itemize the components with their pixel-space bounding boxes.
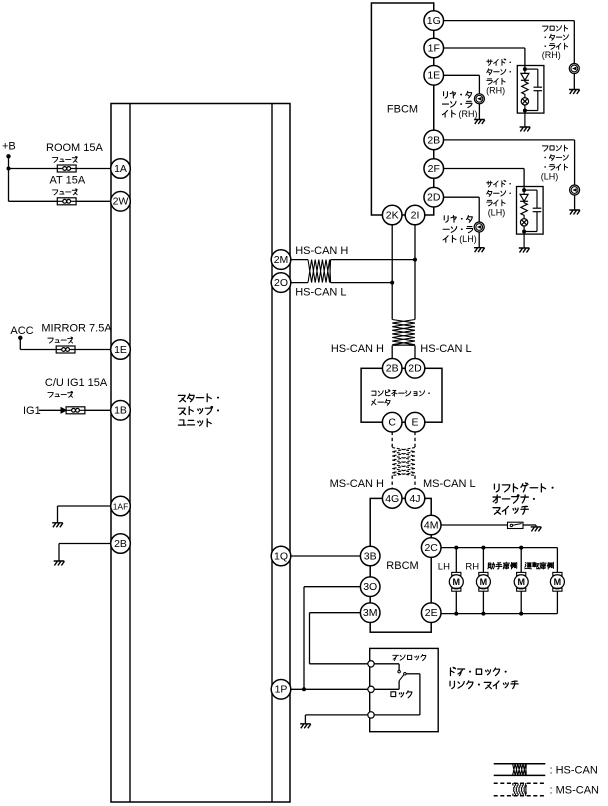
wire 2I down: [414, 215, 416, 320]
wire HS-CAN L to 2K branch: [331, 282, 393, 284]
contact common: [368, 686, 374, 692]
terminal 1AF: [111, 496, 131, 516]
terminal 2B FBCM: [424, 130, 444, 150]
junction +B/ROOM fuse: [7, 167, 11, 171]
wire 2B to ground: [59, 543, 112, 545]
terminal 1Q: [271, 546, 291, 566]
svg-text:: MS-CAN: : MS-CAN: [550, 785, 600, 797]
svg-text:ACC: ACC: [10, 325, 33, 337]
svg-text:2E: 2E: [425, 607, 438, 619]
resistor: [522, 80, 528, 95]
start-stop unit inner right rail: [271, 104, 273, 803]
bulb: [523, 217, 525, 219]
svg-text:1Q: 1Q: [274, 550, 288, 562]
wire 2D to rear turn light LH: [434, 196, 479, 198]
wire switch to ground: [523, 524, 536, 526]
svg-text:1E: 1E: [427, 70, 440, 82]
junction 2E bus: [454, 612, 458, 616]
svg-text:1B: 1B: [114, 405, 127, 417]
front turn light LH bulb: [570, 185, 580, 195]
label door lock link switch: [450, 667, 506, 675]
arrowhead: [61, 408, 66, 413]
junction HS-CAN L: [390, 281, 394, 285]
terminal 2K: [382, 205, 402, 225]
side turn light RH: unit box: [517, 66, 544, 114]
junction 2C bus: [519, 546, 523, 550]
svg-text:M: M: [517, 577, 525, 587]
label driver side: [525, 562, 554, 569]
label side turn light RH: [487, 59, 511, 65]
junction 2C bus: [454, 546, 458, 550]
legend twisted pair solid: [513, 764, 527, 776]
front turn light RH bulb: [569, 64, 579, 74]
twisted pair HS-CAN: [308, 260, 331, 283]
svg-text:M: M: [554, 577, 562, 587]
wire HS-CAN L from 2O: [291, 282, 309, 284]
side turn light LH: unit box: [517, 187, 544, 235]
terminal 1E FBCM: [424, 66, 444, 86]
rear turn light LH bulb: [474, 222, 484, 232]
start-stop unit box: [111, 104, 290, 803]
svg-text:HS-CAN L: HS-CAN L: [295, 287, 346, 299]
unlock contact arm: [374, 663, 399, 665]
ground 2B: [54, 561, 65, 566]
label side turn light LH: [487, 180, 511, 186]
svg-text:LH: LH: [438, 562, 450, 573]
wire 4M to liftgate switch: [441, 524, 508, 526]
wire HS-CAN H to 2I branch: [331, 259, 415, 261]
terminal 2F: [424, 159, 444, 179]
wire MS-CAN H dashed to 4G: [391, 476, 393, 490]
svg-text:AT 15A: AT 15A: [50, 175, 86, 187]
wire 1P to door lock switch: [291, 688, 368, 690]
svg-text:2F: 2F: [428, 163, 440, 175]
wire 2C bus: [441, 547, 558, 549]
svg-text:1F: 1F: [428, 42, 440, 54]
svg-text:2C: 2C: [424, 542, 438, 554]
terminal C: [382, 412, 402, 432]
label lock: [391, 691, 412, 698]
wire fuse to 1A: [76, 168, 112, 170]
label fuse: [48, 337, 73, 343]
svg-text:C/U IG1 15A: C/U IG1 15A: [45, 377, 108, 389]
contact lock: [368, 712, 374, 718]
svg-text:C: C: [388, 417, 396, 429]
wire ACC down: [19, 338, 21, 350]
terminal 3B: [360, 546, 380, 566]
svg-text:(RH): (RH): [459, 109, 478, 119]
label fuse: [52, 156, 77, 162]
terminal 3O: [360, 577, 380, 597]
terminal 2O: [271, 273, 291, 293]
svg-text:2B: 2B: [386, 363, 399, 375]
label front turn light RH: [542, 25, 567, 31]
terminal 2B unit: [111, 534, 131, 554]
wire 2B to front turn light LH: [434, 139, 575, 141]
svg-text:M: M: [453, 577, 461, 587]
junction 2C bus: [481, 546, 485, 550]
LED diode: [521, 73, 529, 80]
svg-text:3O: 3O: [363, 581, 377, 593]
wire 1F to side turn light RH: [434, 47, 525, 49]
terminal 2I: [405, 205, 425, 225]
svg-text:2D: 2D: [408, 363, 422, 375]
svg-text:4M: 4M: [424, 519, 439, 531]
svg-text:2I: 2I: [411, 209, 420, 221]
switch lever: [399, 675, 404, 681]
terminal 4M: [421, 515, 441, 535]
terminal E: [405, 412, 425, 432]
door lock link switch box: [370, 648, 439, 731]
wire 2F to side turn light LH: [434, 168, 524, 170]
wire to AT fuse: [9, 200, 58, 202]
capacitor branch: [524, 189, 537, 191]
svg-text:(LH): (LH): [488, 207, 506, 217]
wire HS-CAN H from 2M: [291, 259, 309, 261]
RBCM box: [370, 498, 431, 632]
terminal 2B meter: [382, 359, 402, 379]
svg-text:(LH): (LH): [541, 171, 559, 181]
wire to ground: [523, 232, 525, 249]
svg-text:2B: 2B: [114, 538, 127, 550]
svg-text:: HS-CAN: : HS-CAN: [550, 765, 598, 777]
wire 1AF to ground: [58, 505, 113, 507]
terminal 1E: [111, 340, 131, 360]
terminal 1B: [111, 401, 131, 421]
switch blade: [513, 524, 522, 526]
ground door lock switch: [300, 724, 311, 729]
wire fuse to 1E: [75, 349, 112, 351]
terminal 1P: [271, 680, 291, 700]
svg-text:RBCM: RBCM: [386, 560, 418, 572]
wire to meter 2B: [391, 346, 393, 360]
side turn light RH ground: [520, 127, 531, 132]
svg-text:IG1: IG1: [23, 405, 41, 417]
svg-text:2W: 2W: [113, 196, 129, 208]
wire fuse to 2W: [76, 200, 112, 202]
switch contact: [510, 524, 512, 526]
terminal 2M: [271, 250, 291, 270]
svg-text:2D: 2D: [427, 192, 441, 204]
wire 1Q to 3B: [291, 555, 361, 557]
fuse AT 15A: [57, 198, 76, 205]
terminal 1G: [424, 11, 444, 31]
lock contact to ground: [305, 714, 367, 716]
twisted pair HS-CAN vertical: [392, 320, 415, 346]
terminal 2D meter: [405, 359, 425, 379]
svg-text:1E: 1E: [114, 344, 127, 356]
svg-text:(RH): (RH): [486, 86, 505, 96]
wire MS-CAN L dashed to 4J: [414, 476, 416, 490]
ground 1AF: [52, 523, 63, 528]
svg-text:M: M: [480, 577, 488, 587]
label fuse: [48, 391, 73, 397]
label start-stop unit line1: [178, 394, 219, 402]
junction HS-CAN H: [413, 258, 417, 262]
wire: internal top node: [523, 187, 525, 195]
junction 2E bus: [481, 612, 485, 616]
ground liftgate switch: [531, 527, 542, 532]
label passenger side: [488, 562, 517, 569]
resistor: [521, 201, 527, 216]
label combination meter: [372, 390, 430, 396]
label liftgate opener switch: [494, 483, 553, 492]
svg-text:FBCM: FBCM: [387, 104, 418, 116]
svg-text:1A: 1A: [114, 163, 127, 175]
combination meter box: [361, 368, 442, 422]
wire to MIRROR fuse: [20, 349, 56, 351]
terminal 2W: [111, 192, 131, 212]
wire 2K down: [391, 215, 393, 320]
wire 2E bus: [441, 613, 558, 615]
wire IG1 with arrow: [39, 409, 62, 411]
terminal 4G: [382, 489, 402, 509]
wire MS-CAN H dashed from C: [391, 432, 393, 448]
svg-text:HS-CAN H: HS-CAN H: [295, 245, 348, 257]
label rear turn light RH: [444, 91, 472, 98]
wire to bottom node: [523, 226, 525, 232]
svg-text:3B: 3B: [364, 550, 377, 562]
junction 2E bus: [519, 612, 523, 616]
terminal 3M: [360, 603, 380, 623]
wire to ROOM fuse: [9, 168, 58, 170]
fuse MIRROR 7.5A: [56, 346, 75, 353]
svg-text:(LH): (LH): [459, 234, 477, 244]
wire to ground: [524, 111, 526, 128]
side turn light LH ground: [519, 248, 530, 253]
svg-text:1P: 1P: [275, 684, 288, 696]
legend HS-CAN: [494, 763, 546, 765]
terminal 1A: [111, 159, 131, 179]
door lock motor 4: [556, 548, 558, 573]
svg-text:MIRROR 7.5A: MIRROR 7.5A: [41, 323, 112, 335]
ground front turn RH: [569, 90, 580, 95]
wire to ground: [573, 73, 575, 89]
svg-text:2K: 2K: [386, 209, 399, 221]
svg-text:MS-CAN L: MS-CAN L: [423, 478, 476, 490]
wire: internal top node: [524, 66, 526, 74]
svg-text:2B: 2B: [427, 134, 440, 146]
capacitor branch: [525, 68, 538, 70]
wire to meter 2D: [414, 346, 416, 360]
svg-text:1AF: 1AF: [113, 501, 129, 511]
svg-text:4G: 4G: [385, 493, 399, 505]
svg-text:RH: RH: [465, 562, 479, 573]
wire 1G to front turn light RH: [434, 20, 575, 22]
svg-text:2M: 2M: [274, 254, 289, 266]
terminal 2C: [421, 538, 441, 558]
ground front turn LH: [569, 210, 580, 215]
common contact arm and lever: [374, 688, 399, 690]
twisted pair MS-CAN dashed: [392, 448, 415, 476]
fuse C/U IG1 15A: [66, 407, 85, 414]
svg-text:3M: 3M: [363, 607, 378, 619]
wire 1E to rear turn light RH: [434, 74, 480, 76]
svg-text:HS-CAN H: HS-CAN H: [331, 343, 384, 355]
rear turn light RH bulb: [474, 94, 484, 104]
junction 1P/3O: [302, 687, 306, 691]
wire +B vertical: [8, 156, 10, 201]
svg-text:E: E: [411, 417, 418, 429]
svg-text:4J: 4J: [409, 493, 420, 505]
wire 3M to unlock contact: [310, 612, 361, 614]
label unlock: [393, 654, 426, 660]
fuse ROOM 15A: [57, 165, 76, 172]
start-stop unit inner left rail: [129, 104, 131, 803]
FBCM box: [371, 3, 433, 215]
svg-text:MS-CAN H: MS-CAN H: [330, 478, 384, 490]
label rear turn light LH: [444, 215, 472, 222]
wire MS-CAN L dashed from E: [414, 432, 416, 448]
wire fuse to 1B: [85, 409, 112, 411]
label fuse: [52, 189, 77, 195]
svg-text:2O: 2O: [274, 277, 288, 289]
terminal 2D: [424, 187, 444, 207]
svg-text:+B: +B: [2, 141, 16, 153]
wire 3O to door-lock common: [304, 586, 361, 588]
legend twisted pair dashed: [513, 783, 527, 796]
terminal 2E: [421, 603, 441, 623]
bulb: [524, 96, 526, 98]
liftgate opener switch: [508, 522, 524, 528]
terminal 1F: [424, 38, 444, 58]
contact unlock: [368, 661, 374, 667]
LED diode: [520, 194, 528, 201]
ground rear turn RH: [474, 120, 485, 125]
legend MS-CAN: [494, 782, 546, 784]
svg-text:(RH): (RH): [542, 50, 561, 60]
wire to bottom node: [524, 105, 526, 111]
terminal 4J: [405, 489, 425, 509]
svg-text:HS-CAN L: HS-CAN L: [420, 343, 471, 355]
svg-text:1G: 1G: [427, 15, 441, 27]
label front turn light LH: [542, 145, 567, 151]
ground rear turn LH: [474, 248, 485, 253]
svg-text:ROOM 15A: ROOM 15A: [46, 142, 104, 154]
